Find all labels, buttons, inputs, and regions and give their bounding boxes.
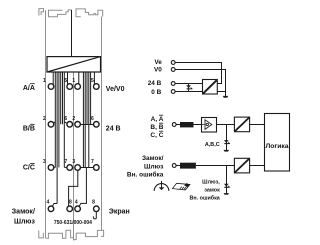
svg-text:8: 8 [92,200,95,206]
svg-text:Экран: Экран [109,208,130,215]
svg-text:750-631/000-004: 750-631/000-004 [54,220,92,226]
svg-text:V0: V0 [154,67,162,74]
svg-text:5: 5 [64,78,67,84]
svg-text:Шлюз: Шлюз [14,218,35,225]
svg-text:A,B,C: A,B,C [205,142,220,148]
svg-text:3: 3 [72,159,75,165]
svg-text:Логика: Логика [265,143,288,150]
svg-text:Замок/: Замок/ [12,209,35,216]
svg-text:Ve/V0: Ve/V0 [106,86,125,93]
svg-text:4: 4 [75,200,78,206]
svg-text:замок: замок [204,187,220,193]
svg-text:6: 6 [91,116,94,122]
svg-text:24 В: 24 В [148,80,162,87]
svg-text:6: 6 [64,116,67,122]
svg-text:A/A: A/A [23,85,35,92]
svg-text:C, C: C, C [150,132,163,139]
svg-text:Шлюз,: Шлюз, [202,179,220,185]
svg-text:Шлюз: Шлюз [144,163,164,170]
svg-text:Ve: Ve [154,59,162,66]
svg-text:4: 4 [47,200,50,206]
svg-text:1: 1 [72,78,75,84]
svg-text:B, B: B, B [150,124,163,131]
svg-text:0 В: 0 В [151,89,161,96]
svg-text:C/C: C/C [23,165,35,172]
svg-text:8: 8 [69,200,72,206]
svg-text:B/B: B/B [23,125,35,132]
svg-text:Вн. ошибка: Вн. ошибка [127,170,164,178]
svg-text:Вн. ошибка: Вн. ошибка [190,194,221,201]
svg-text:A, A: A, A [151,116,164,123]
svg-text:2: 2 [72,116,75,122]
svg-text:5: 5 [91,78,94,84]
svg-text:1: 1 [43,78,46,84]
svg-text:2: 2 [43,116,46,122]
svg-text:Замок/: Замок/ [142,155,164,162]
svg-text:24 В: 24 В [106,125,121,132]
svg-text:3: 3 [43,159,46,165]
svg-text:7: 7 [91,159,94,165]
svg-text:7: 7 [64,159,67,165]
